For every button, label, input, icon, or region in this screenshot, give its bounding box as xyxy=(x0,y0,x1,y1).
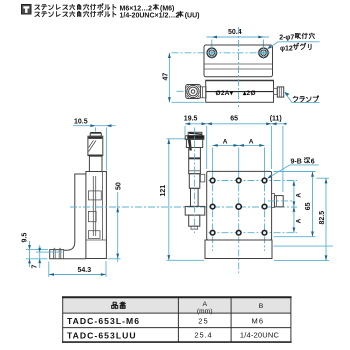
svg-text:7: 7 xyxy=(32,265,39,269)
svg-text:10.5: 10.5 xyxy=(74,119,88,126)
svg-text:54.3: 54.3 xyxy=(78,267,92,274)
svg-text:(UU): (UU) xyxy=(185,12,200,19)
svg-text:▴2Ø: ▴2Ø xyxy=(242,90,256,97)
svg-text:1/4-20UNC×1/2…2: 1/4-20UNC×1/2…2 xyxy=(120,12,180,19)
svg-text:M6: M6 xyxy=(251,316,264,325)
svg-text:2-φ7: 2-φ7 xyxy=(279,35,294,42)
svg-text:25: 25 xyxy=(198,316,209,325)
svg-text:65: 65 xyxy=(305,202,312,210)
svg-text:50: 50 xyxy=(116,182,123,190)
svg-text:(M6): (M6) xyxy=(160,5,174,12)
svg-text:A: A xyxy=(296,193,303,198)
svg-text:A: A xyxy=(296,218,303,223)
svg-text:TADC-653LUU: TADC-653LUU xyxy=(67,331,137,341)
svg-text:A: A xyxy=(203,301,208,308)
svg-text:65: 65 xyxy=(230,116,238,123)
svg-text:19.5: 19.5 xyxy=(184,116,198,123)
svg-text:M6×12…2: M6×12…2 xyxy=(120,5,153,12)
svg-text:47: 47 xyxy=(162,73,169,81)
svg-text:121: 121 xyxy=(160,185,167,197)
svg-text:B: B xyxy=(259,303,264,310)
svg-text:Ø2A▾: Ø2A▾ xyxy=(216,90,234,97)
svg-text:(mm): (mm) xyxy=(197,308,213,315)
svg-text:6: 6 xyxy=(311,158,315,165)
svg-text:A: A xyxy=(249,139,254,146)
svg-text:25.4: 25.4 xyxy=(194,331,212,340)
svg-text:A: A xyxy=(223,139,228,146)
svg-text:9-B: 9-B xyxy=(291,158,302,165)
svg-text:(11): (11) xyxy=(270,116,282,123)
svg-text:50.4: 50.4 xyxy=(228,29,242,36)
svg-text:TADC-653L-M6: TADC-653L-M6 xyxy=(67,316,140,326)
svg-text:82.5: 82.5 xyxy=(319,211,326,225)
svg-text:1/4-20UNC: 1/4-20UNC xyxy=(240,331,280,340)
svg-text:9.5: 9.5 xyxy=(21,233,28,243)
svg-text:φ12: φ12 xyxy=(280,45,293,52)
